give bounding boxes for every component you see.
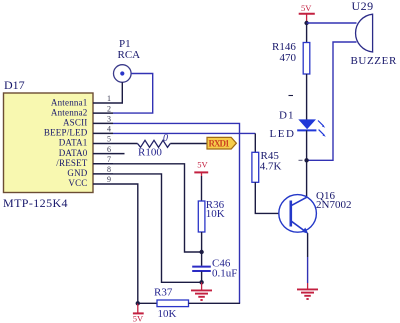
wire pin3 ASCII long wire right and down <box>113 123 240 303</box>
resistor R36 value label 10K <box>206 208 225 220</box>
svg-text:1: 1 <box>107 94 111 103</box>
svg-text:10K: 10K <box>158 308 177 320</box>
ground symbol right <box>297 283 318 299</box>
svg-text:DATA0: DATA0 <box>59 148 88 158</box>
wire 5V junction to buzzer top pin <box>307 22 357 24</box>
svg-text:0.1uF: 0.1uF <box>212 268 237 280</box>
wire pin9 VCC down to bottom rail <box>113 184 138 303</box>
wire pin4 down to R45 <box>254 133 256 152</box>
wire pin2 to RCA right side <box>113 74 153 114</box>
junction dot reset RC node <box>199 250 203 254</box>
svg-text:U29: U29 <box>352 0 374 13</box>
connector P1 label <box>118 38 141 61</box>
wire LED to collector node <box>306 130 308 160</box>
ground symbol middle <box>191 282 212 300</box>
buzzer U29 designator label <box>352 0 374 13</box>
net flag RXD1 <box>207 137 236 149</box>
resistor R100 zigzag <box>138 140 171 147</box>
svg-text:9: 9 <box>107 175 111 184</box>
wire pin8 GND down to ground junction <box>113 174 201 282</box>
capacitor C46 designator label <box>212 258 231 270</box>
junction dot VCC bottom <box>136 301 140 305</box>
power symbol 5V middle <box>194 160 208 177</box>
svg-text:5V: 5V <box>133 313 144 323</box>
svg-text:LED: LED <box>270 128 296 140</box>
LED D1 symbol <box>297 119 326 136</box>
svg-text:470: 470 <box>280 52 297 64</box>
wire bottom rail left segment <box>138 302 157 304</box>
chip D17 part number label MTP-125K4 <box>3 196 68 210</box>
wire pin7 /RESET to RC junction <box>113 164 201 252</box>
transistor Q16 symbol <box>279 195 317 234</box>
svg-text:5: 5 <box>107 135 111 144</box>
wire 5V junction to R146 <box>306 23 308 43</box>
svg-text:0: 0 <box>163 133 168 144</box>
wire emitter down blue segment <box>307 257 309 283</box>
junction dot ground node <box>199 280 203 284</box>
wire R100 to RXD1 flag <box>170 143 207 145</box>
svg-text:8: 8 <box>107 165 111 174</box>
svg-text:6: 6 <box>107 145 111 154</box>
resistor R146 value label 470 <box>280 52 297 64</box>
svg-text:DATA1: DATA1 <box>59 138 88 148</box>
svg-text:2N7002: 2N7002 <box>316 199 351 211</box>
tick mark at node <box>299 159 303 161</box>
chip pin name labels <box>44 97 88 188</box>
svg-text:D17: D17 <box>4 78 25 92</box>
svg-text:5V: 5V <box>301 3 312 13</box>
svg-text:VCC: VCC <box>68 178 87 188</box>
svg-text:5V: 5V <box>197 160 208 170</box>
buzzer U29 name label <box>351 55 397 67</box>
svg-text:R100: R100 <box>138 147 162 159</box>
connector P1 RCA circle <box>114 65 132 83</box>
svg-text:RCA: RCA <box>118 49 141 61</box>
resistor R37 value label 10K <box>158 308 177 320</box>
wire emitter down dark segment <box>307 233 309 257</box>
svg-text:MTP-125K4: MTP-125K4 <box>3 196 68 210</box>
resistor R45 body <box>252 152 259 182</box>
svg-text:D1: D1 <box>279 109 294 121</box>
transistor Q16 part label 2N7002 <box>316 199 351 211</box>
svg-text:Antenna2: Antenna2 <box>51 108 88 118</box>
svg-text:Antenna1: Antenna1 <box>51 97 88 107</box>
svg-text:BEEP/LED: BEEP/LED <box>44 128 88 138</box>
power symbol 5V bottom (inverted) <box>133 303 144 323</box>
svg-text:4: 4 <box>107 125 111 134</box>
buzzer U29 body <box>356 14 373 52</box>
wire bottom rail right segment <box>189 302 241 304</box>
wire R146 to LED <box>306 74 308 120</box>
wire R36 bottom to junction <box>201 232 203 266</box>
capacitor C46 value label 0.1uF <box>212 268 237 280</box>
LED D1 name label <box>270 128 296 140</box>
wire pin5 left lead <box>113 143 138 145</box>
transistor Q16 designator label <box>316 190 335 202</box>
wire pin4 BEEP/LED right <box>113 132 255 134</box>
resistor R37 body <box>157 300 189 307</box>
chip pin numbers <box>107 94 111 184</box>
wire 5V to R36 top <box>201 176 203 201</box>
capacitor C46 plates <box>192 267 211 271</box>
polarity tick mark <box>289 95 294 97</box>
wire C46 bottom lead <box>201 272 203 283</box>
chip D17 body <box>4 93 94 193</box>
resistor R36 designator label <box>206 199 225 211</box>
svg-text:7: 7 <box>107 155 111 164</box>
resistor R36 body <box>198 201 205 232</box>
svg-text:3: 3 <box>107 115 111 124</box>
svg-text:/RESET: /RESET <box>56 158 88 168</box>
wire buzzer bottom pin down to LED node <box>307 42 357 160</box>
wire R45 to transistor base <box>255 182 290 213</box>
resistor R37 designator label <box>154 287 173 299</box>
chip D17 designator label <box>4 78 25 92</box>
svg-text:GND: GND <box>67 168 87 178</box>
resistor R100 value label 0 <box>163 133 168 144</box>
wire node to transistor collector <box>306 160 308 197</box>
svg-text:RXD1: RXD1 <box>209 138 231 148</box>
resistor R146 body <box>303 43 310 75</box>
svg-text:4.7K: 4.7K <box>260 161 282 173</box>
chip pin stubs 1-9 <box>93 103 125 184</box>
resistor R146 designator label <box>272 41 296 53</box>
svg-text:R37: R37 <box>154 287 173 299</box>
resistor R45 designator label <box>261 150 280 162</box>
svg-text:10K: 10K <box>206 208 225 220</box>
resistor R100 designator label <box>138 147 162 159</box>
resistor R45 value label 4.7K <box>260 161 282 173</box>
junction dot LED node <box>304 158 308 162</box>
LED D1 designator label <box>279 109 294 121</box>
svg-text:BUZZER: BUZZER <box>351 55 397 67</box>
wire pin1 to RCA <box>113 82 122 103</box>
junction dot 5V node <box>304 21 308 25</box>
svg-text:2: 2 <box>107 104 111 113</box>
power symbol 5V top right <box>299 3 315 23</box>
svg-text:ASCII: ASCII <box>63 118 88 128</box>
